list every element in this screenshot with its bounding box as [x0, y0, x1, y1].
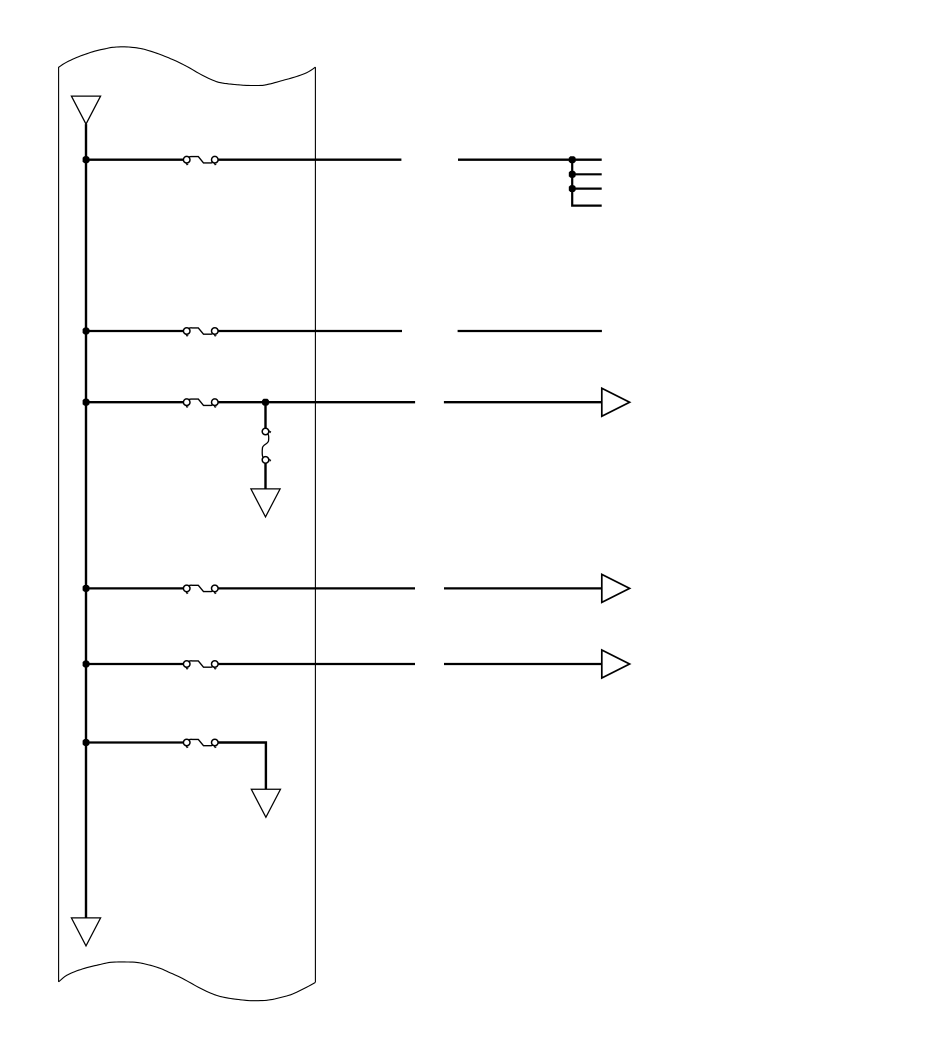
junction S1 b [569, 171, 576, 178]
fuse-block boundary: left torn edge [58, 67, 60, 982]
junction row3/drop [262, 399, 269, 406]
fuse F1 [183, 156, 218, 164]
off-page arrow row3 [602, 388, 630, 416]
wire row2 fuse-to-edge [218, 330, 402, 332]
fuse-block boundary: right edge [314, 67, 316, 982]
fuse F5 [183, 661, 218, 669]
ground arrow (row6) [251, 789, 280, 817]
wire row5 fuse-to-edge [218, 663, 415, 665]
fuse-block boundary: top torn (wavy) edge [59, 47, 316, 86]
fuse F7 (vertical) [262, 428, 270, 463]
splice S1 branch 2 [572, 173, 602, 175]
junction bus/row5 [83, 661, 90, 668]
wire row3 bus-to-fuse F3 [86, 401, 183, 403]
off-page arrow row5 [602, 650, 630, 678]
wire row4 bus-to-fuse F4 [86, 587, 183, 589]
wire row6 bus-to-fuse F6 [86, 741, 183, 743]
junction S1 c [569, 185, 576, 192]
fuse F4 [183, 585, 218, 593]
wire row4 right segment [444, 587, 602, 589]
wire row3 fuse-to-edge [218, 401, 415, 403]
fuse F3 [183, 399, 218, 407]
power-out arrow (bottom of bus B+) [71, 918, 100, 946]
wire row5 right segment [444, 663, 602, 665]
off-page arrow row4 [602, 574, 630, 602]
junction S1 a [569, 156, 576, 163]
wire row3 right segment [444, 401, 602, 403]
wire row3 drop to fuse F7 [264, 402, 266, 428]
wire row1 bus-to-fuse F1 [86, 159, 183, 161]
wire row6 fuse-to-ground corner [218, 743, 266, 790]
wire row1 right segment to splice S1 [458, 159, 602, 161]
fuse F6 [183, 739, 218, 747]
junction bus/row3 [83, 399, 90, 406]
wire row2 right segment [458, 330, 602, 332]
splice S1 vertical [572, 160, 602, 206]
wire row4 fuse-to-edge [218, 587, 415, 589]
fuse F2 [183, 328, 218, 336]
wire row1 fuse-to-edge [218, 159, 401, 161]
ground arrow (row3 drop) [251, 489, 280, 517]
power-in arrow (top of bus B+) [71, 96, 100, 124]
junction bus/row4 [83, 585, 90, 592]
fuse-block boundary: bottom torn (wavy) edge [59, 962, 316, 1001]
splice S1 branch 3 [572, 188, 602, 190]
wire row2 bus-to-fuse F2 [86, 330, 183, 332]
junction bus/row1 [83, 156, 90, 163]
wire fuse F7 to ground arrow [264, 463, 266, 489]
junction bus/row6 [83, 739, 90, 746]
junction bus/row2 [83, 328, 90, 335]
bus vertical wire B+ [85, 124, 87, 918]
wire row5 bus-to-fuse F5 [86, 663, 183, 665]
